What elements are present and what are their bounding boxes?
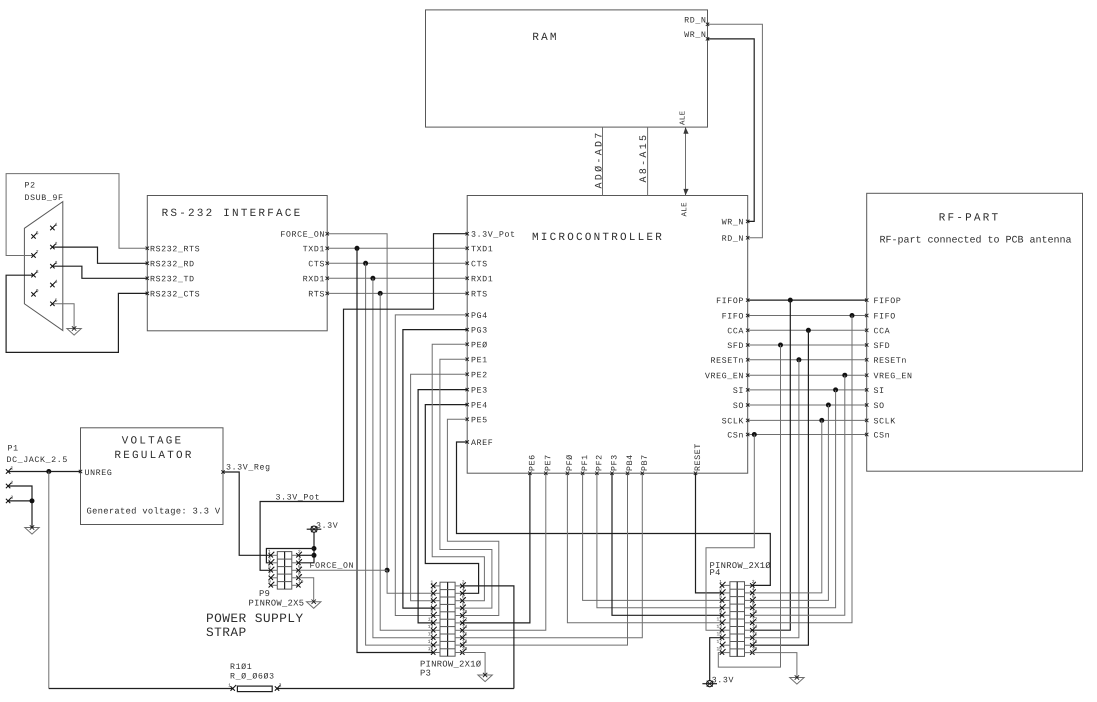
RS232 pin label TXD1 bbox=[303, 246, 324, 251]
bus AD0-AD7 bbox=[602, 127, 604, 195]
junction RTS bbox=[378, 291, 383, 296]
pin header P9 PINROW_2X5 bbox=[268, 550, 303, 589]
ground at P2 bbox=[67, 326, 81, 335]
MCU pin label CCA bbox=[728, 328, 744, 334]
wire PE1 to P3 pin8 bbox=[440, 359, 492, 608]
RS-232 title bbox=[162, 209, 299, 216]
RAM title bbox=[533, 33, 556, 40]
MCU pin label FIFO bbox=[722, 313, 743, 319]
VREG pin label UNREG bbox=[85, 469, 111, 475]
wire PE5 to P3 pin10 bbox=[447, 419, 498, 615]
wire PE6 to P3 pin12 bbox=[462, 473, 530, 623]
wire RS232_CTS to P2 pin8 bbox=[6, 275, 147, 352]
wire SFD MCU to RF bbox=[748, 344, 867, 346]
wire RXD1 to P3 pin15 bbox=[373, 278, 433, 637]
wire bottom rail right bbox=[277, 688, 514, 690]
RS232 pin label RS232_TD bbox=[151, 276, 194, 282]
wire P1 pin3 to ground bbox=[8, 501, 32, 528]
wire PE2 to P3 pin5 bbox=[411, 374, 468, 600]
junction CSn bbox=[752, 432, 757, 437]
wire SCLK MCU to RF bbox=[748, 419, 867, 421]
wire AREF to P4 pin2 bbox=[457, 442, 771, 585]
junction UNREG bbox=[46, 469, 51, 474]
MCU title bbox=[533, 233, 662, 240]
wire 3.3V_Pot to P9 pin5 bbox=[260, 234, 467, 571]
MCU bottom pin label PF2 bbox=[596, 455, 602, 470]
RS232 pin crosses bbox=[146, 232, 329, 295]
RS232 pin label CTS bbox=[309, 261, 324, 267]
wire PE4 to P3 pin4 bbox=[425, 405, 478, 594]
junction CTS bbox=[363, 261, 368, 266]
junction 3.3V strap b bbox=[312, 553, 317, 558]
label DSUB_9F bbox=[25, 194, 62, 200]
MCU pin label SI bbox=[733, 387, 742, 393]
wire RTS to P3 pin13 bbox=[380, 293, 433, 630]
wire P1 pin2 bbox=[8, 486, 32, 501]
wire FIFOP MCU to RF bbox=[748, 299, 867, 301]
label PINROW_2X10 P3 bbox=[421, 661, 481, 668]
label P2 bbox=[25, 182, 34, 188]
VREG title line1 bbox=[122, 436, 181, 443]
MCU bottom pin label PE6 bbox=[529, 455, 535, 470]
RF pin label CSn bbox=[874, 432, 889, 438]
wire RXD1 bbox=[327, 277, 467, 279]
MCU pin label RESETn bbox=[711, 357, 742, 363]
wire PF2 to P4 pin7 bbox=[597, 473, 722, 608]
wire P4 pin15 to 3.3V bbox=[710, 638, 722, 681]
ground at P1 bbox=[25, 525, 39, 534]
pin header P3 PINROW_2X10 bbox=[428, 580, 467, 656]
RF pin label FIFO bbox=[874, 313, 895, 319]
RAM pin label WR_N bbox=[684, 32, 705, 38]
RF-PART title bbox=[940, 213, 998, 220]
wire P2 pin5 to ground bbox=[52, 304, 74, 329]
ALE arrowhead bottom bbox=[683, 189, 688, 196]
junction VREG_EN bbox=[842, 373, 847, 378]
RS232 pin label RTS bbox=[309, 291, 324, 297]
junction RXD1 bbox=[370, 276, 375, 281]
ground at P9 bbox=[307, 600, 321, 609]
wire P4 pin20 to ground bbox=[752, 653, 797, 678]
RF-PART block bbox=[867, 193, 1083, 471]
MCU pin label PG4 bbox=[472, 312, 487, 318]
wire P9 pin8 to ground bbox=[298, 578, 313, 602]
wire RS232_RTS to P2 pin7 bbox=[6, 174, 147, 256]
MCU side label ALE2 bbox=[681, 203, 686, 217]
wire ALE bbox=[685, 127, 687, 195]
wire P3 pin2 down to rail bbox=[462, 586, 514, 689]
MCU bottom pin label PE7 bbox=[545, 456, 550, 471]
label P9 bbox=[260, 590, 270, 596]
VREG title line2 bbox=[115, 451, 191, 458]
wire 3.3V to P9 pin4 bbox=[298, 532, 314, 563]
wire FORCE_ON down bbox=[327, 234, 387, 571]
wire CCA MCU to RF bbox=[748, 329, 867, 331]
MCU pin label PEØ bbox=[472, 342, 487, 348]
bus label A8-A15 bbox=[639, 136, 646, 183]
junction FIFO bbox=[850, 313, 855, 318]
RS232 pin label RS232_RD bbox=[151, 261, 194, 267]
net label 3.3V_Pot bbox=[276, 494, 319, 500]
RAM block U-RAM bbox=[426, 10, 708, 127]
label STRAP bbox=[206, 627, 245, 636]
connector P1 pins bbox=[6, 466, 13, 503]
wire UNREG junction down to bottom rail bbox=[48, 472, 50, 689]
wire SFD to P4 pin19 bbox=[718, 345, 780, 667]
junction SI bbox=[833, 387, 838, 392]
connector P2 pins bbox=[31, 223, 57, 306]
wire SI MCU to RF bbox=[748, 389, 867, 391]
MCU pin label CSn bbox=[728, 432, 743, 438]
VREG pin crosses bbox=[79, 470, 225, 474]
RF pin label SCLK bbox=[874, 418, 895, 424]
bus A8-A15 bbox=[647, 127, 649, 195]
voltage regulator block bbox=[81, 428, 224, 525]
pin header P4 PINROW_2X10 bbox=[717, 580, 757, 656]
RF pin label VREG_EN bbox=[874, 373, 912, 379]
label P4 bbox=[710, 569, 720, 575]
label P1 bbox=[8, 445, 18, 450]
MCU pin label CTS bbox=[471, 261, 486, 267]
MCU pin label AREF bbox=[471, 440, 492, 445]
wire SCLK to P4 pin4 bbox=[752, 420, 822, 593]
wire PB4 to P3 pin18 bbox=[462, 473, 627, 645]
junction CCA bbox=[806, 328, 811, 333]
wire TXD1 bbox=[327, 247, 467, 249]
junction SFD bbox=[778, 343, 783, 348]
RAM pin label RD_N bbox=[685, 17, 705, 23]
RS-232 interface block bbox=[147, 196, 327, 331]
RF pin label SI bbox=[874, 387, 883, 393]
ground at P4 bbox=[790, 675, 804, 684]
wire 3.3V strap to P9 pin3 bbox=[266, 549, 314, 563]
resistor R101 pins bbox=[229, 683, 282, 690]
wire FIFO to P4 pin12 bbox=[752, 316, 852, 623]
RS232 pin label RS232_CTS bbox=[151, 291, 200, 297]
label DC_JACK_2.5 bbox=[7, 456, 67, 462]
wire PE3 to P3 pin11 bbox=[418, 390, 467, 623]
3.3V symbol at P9 bbox=[307, 522, 338, 532]
wire WR_N RAM to MCU bbox=[708, 39, 755, 222]
wire PF0 to P4 pin11 bbox=[567, 473, 722, 623]
MCU pin label VREG_EN bbox=[705, 373, 743, 379]
MCU pin label PE3 bbox=[472, 387, 487, 393]
wire CTS to P3 pin17 bbox=[366, 263, 434, 645]
MICROCONTROLLER block U1 bbox=[467, 196, 748, 474]
junction TXD1 bbox=[355, 246, 360, 251]
junction 3.3V strap a bbox=[312, 546, 317, 551]
wire SI to P4 pin8 bbox=[752, 390, 835, 608]
wire P9 pin2 to 3.3V bbox=[298, 554, 314, 556]
wire P3 pin20 to ground bbox=[462, 653, 485, 676]
MCU pin label PE4 bbox=[472, 402, 487, 407]
wire RTS bbox=[327, 292, 467, 294]
RF pin label SO bbox=[874, 402, 884, 408]
ALE arrowhead top bbox=[683, 127, 688, 134]
MCU pin label SFD bbox=[728, 342, 743, 348]
label PINROW_2X10 P4 bbox=[710, 562, 770, 569]
VREG note bbox=[87, 507, 220, 515]
label POWER SUPPLY bbox=[207, 613, 303, 622]
RF pin label RESETn bbox=[874, 357, 905, 363]
MCU pin label WR_N bbox=[722, 219, 743, 225]
resistor R101 body bbox=[237, 686, 272, 692]
wire PF1 to P4 pin5 bbox=[583, 473, 722, 600]
junction P1 pin3 bbox=[30, 498, 35, 503]
net label 3.3V_Reg bbox=[227, 464, 270, 471]
wire RESET to P4 pin3 bbox=[696, 473, 723, 593]
MCU pin label FIFOP bbox=[717, 298, 743, 304]
junction FORCE_ON bbox=[385, 568, 390, 573]
RS232 pin label FORCE_ON bbox=[281, 231, 324, 237]
RF pin label SFD bbox=[874, 342, 889, 348]
wire CSn MCU to RF bbox=[748, 434, 867, 436]
label R_0_0603 bbox=[231, 673, 274, 680]
MCU pin label PE1 bbox=[472, 357, 487, 362]
wire FORCE_ON to P9 pin6 bbox=[298, 569, 387, 571]
RAM pin crosses bbox=[706, 23, 709, 41]
label P3 bbox=[421, 670, 431, 676]
wire PG3 to P3 pin7 bbox=[403, 330, 467, 608]
MCU bottom pin label PB4 bbox=[627, 455, 632, 470]
MCU pin label PG3 bbox=[472, 327, 487, 333]
MCU pin label RXD1 bbox=[472, 276, 493, 281]
junction SCLK bbox=[819, 418, 824, 423]
wire bottom rail left bbox=[49, 688, 233, 690]
MCU pin label RTS bbox=[472, 291, 487, 297]
wire RS232_RD to P2 pin2 bbox=[52, 247, 147, 263]
RS232 pin label RS232_RTS bbox=[151, 246, 200, 252]
wire RESETn to P4 pin16 bbox=[752, 360, 799, 638]
label R101 bbox=[231, 663, 252, 669]
MCU bottom pin label RESET bbox=[694, 444, 700, 470]
MCU bottom pin label PB7 bbox=[641, 456, 646, 471]
connector P2 DSUB_9F body bbox=[24, 202, 62, 331]
RF pin crosses bbox=[865, 298, 868, 436]
RF pin label CCA bbox=[874, 328, 890, 334]
label PINROW_2X5 bbox=[249, 600, 303, 607]
MCU pin label 3.3V_Pot bbox=[472, 231, 515, 237]
junction FIFOP bbox=[788, 298, 793, 303]
MCU pin label TXD1 bbox=[471, 246, 492, 251]
RF pin label FIFOP bbox=[874, 298, 900, 304]
junction RESETn bbox=[796, 357, 801, 362]
ground at P3 bbox=[478, 673, 492, 682]
MCU pin label SO bbox=[733, 402, 743, 408]
RF-PART subtitle bbox=[880, 235, 1071, 244]
RS232 pin label RXD1 bbox=[303, 276, 324, 281]
wire PE0 to P3 pin6 bbox=[432, 344, 484, 600]
wire TXD1 to P3 pin19 bbox=[357, 248, 433, 652]
wire CTS bbox=[327, 262, 467, 264]
wire PE7 to P3 pin14 bbox=[462, 473, 546, 630]
net label FORCE_ON bbox=[310, 562, 353, 568]
wire P1 pin1 to UNREG bbox=[8, 471, 80, 473]
wire PG4 to P3 pin9 bbox=[395, 315, 467, 616]
RAM side label ALE bbox=[680, 111, 685, 125]
wire CSn to P4 pin13 bbox=[706, 435, 754, 631]
MCU bottom pin label PF3 bbox=[611, 455, 617, 470]
wire 3.3V_Reg to P9 pin1 bbox=[223, 472, 271, 555]
wire PB7 to P3 pin16 bbox=[462, 473, 642, 638]
MCU pin label PE2 bbox=[472, 372, 487, 378]
MCU pin label SCLK bbox=[722, 418, 743, 424]
wire SO MCU to RF bbox=[748, 404, 867, 406]
MCU pin label RD_N bbox=[722, 235, 742, 241]
wire PF3 to P4 pin9 bbox=[612, 473, 722, 615]
3.3V symbol at P4 bbox=[702, 677, 733, 687]
junction SO bbox=[826, 403, 831, 408]
wire RD_N RAM to MCU bbox=[708, 24, 763, 238]
bus label AD0-AD7 bbox=[595, 133, 602, 188]
wire CCA to P4 pin18 bbox=[752, 330, 808, 645]
MCU bottom pin label PFØ bbox=[566, 455, 572, 470]
wire VREG_EN MCU to RF bbox=[748, 374, 867, 376]
wire SO to P4 pin6 bbox=[752, 405, 828, 600]
MCU pin label PE5 bbox=[472, 417, 487, 423]
MCU bottom pin label PF1 bbox=[582, 455, 587, 470]
wire FIFO MCU to RF bbox=[748, 315, 867, 317]
wire RS232_TD to P2 pin3 bbox=[52, 266, 147, 278]
wire VREG_EN to P4 pin10 bbox=[752, 375, 845, 615]
MCU pin crosses bbox=[466, 220, 750, 475]
wire FORCE_ON to P3 pin3 bbox=[387, 570, 433, 593]
wire RESETn MCU to RF bbox=[748, 359, 867, 361]
wire FIFOP to P4 pin14 bbox=[752, 300, 790, 630]
